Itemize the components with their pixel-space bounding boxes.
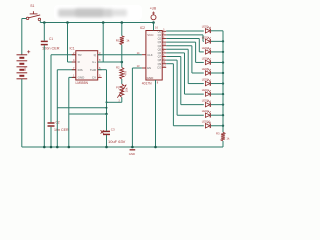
wire THR pin down [98,70,107,114]
wire LED1 cathode to right rail [211,30,223,32]
wire C1 top to rail [43,23,45,41]
svg-text:10k: 10k [125,87,129,92]
svg-text:THR: THR [90,68,97,72]
LED2 [202,35,211,43]
svg-text:LED9: LED9 [202,109,209,113]
LED9 [202,109,211,117]
IC2 GND pin wire to bottom rail [156,80,159,147]
trimmer P1 10k [116,84,129,103]
svg-text:R3: R3 [216,132,220,136]
LED8 [202,99,211,107]
wire LED10 cathode to right rail [211,125,223,127]
svg-text:+UB: +UB [150,7,156,11]
IC2 output pin labels [157,29,162,69]
capacitor C2 10n [48,121,69,132]
LED4 [202,56,211,64]
node C3/bottom rail [105,146,108,149]
wire C3 top [106,114,108,131]
capacitor C1 100n [41,37,60,50]
IC1 pin labels [78,53,97,80]
svg-text:Q4: Q4 [158,44,162,48]
LED1 [202,25,211,33]
wire top +UB rail [40,22,153,24]
node pot/THR vertical [106,101,108,103]
wire Q0 to LED1 [166,30,204,32]
LED10 [202,120,211,128]
node C1/bottom rail [43,146,46,149]
wire Q6 to LED7 [166,53,204,94]
node LED5/right rail [222,72,224,74]
LED7 [202,88,211,96]
svg-text:R1: R1 [116,39,120,43]
svg-text:LED10: LED10 [202,120,211,124]
svg-text:R2: R2 [116,66,120,70]
resistor R2 47k [116,66,128,80]
wire LED7 cathode to right rail [211,93,223,95]
wire reset pin to top rail [68,23,76,63]
node EN-gnd/bottom rail [131,146,134,149]
svg-text:CV: CV [92,76,96,80]
power symbol +UB [150,7,156,20]
IC2 CLK pin stub [137,51,146,55]
node LED10/right rail [222,125,224,127]
wire Q1 to LED2 [166,35,204,41]
wire Q9 to LED10 [166,64,204,126]
svg-text:S1: S1 [30,4,34,8]
op IC1 LM555N body [70,47,98,86]
wire battery minus to bottom rail [21,79,23,147]
svg-text:GND: GND [78,76,86,80]
svg-text:Q3: Q3 [158,40,162,44]
resistor R3 1k [216,132,230,141]
capacitor C3 10uF electrolytic [101,128,126,144]
wire Q2 to LED3 [166,39,204,52]
node junction VCC/top rail [152,21,155,24]
svg-text:P1: P1 [116,86,120,90]
svg-text:C3: C3 [111,128,115,132]
node LED4/right rail [222,61,224,63]
LED3 [202,46,211,54]
svg-text:LED7: LED7 [202,88,209,92]
node LED8/right rail [222,103,224,105]
node LED6/right rail [222,82,224,84]
svg-text:LED6: LED6 [202,77,209,81]
node THR/A junction [106,107,108,109]
svg-text:47k: 47k [124,71,128,76]
svg-text:LED3: LED3 [202,46,209,50]
wire C2 bottom to ground rail [50,127,52,147]
wire P1 bottom to THR node [107,97,122,102]
wire LED2 cathode to right rail [211,40,223,42]
svg-text:LED8: LED8 [202,99,209,103]
svg-text:CLK: CLK [147,53,153,57]
svg-text:Q1: Q1 [158,33,162,37]
wire LED3 cathode to right rail [211,51,223,53]
wire R2 bottom to P1 top [121,79,123,84]
svg-text:10n CER: 10n CER [54,128,69,132]
wire switch to battery (left) [22,19,27,55]
IC2 EN pin stub [137,64,146,68]
wire THR node left to DIS line [57,107,106,109]
watermark blur band [54,5,142,20]
node IC2 GND/bottom rail [154,146,157,149]
battery B1 9V [17,50,31,79]
wire GND pin down to ground rail [69,77,76,147]
svg-text:Q0: Q0 [158,29,162,33]
wire switch to top rail [39,21,41,23]
wire LED9 cathode to right rail [211,114,223,116]
svg-text:Q6: Q6 [158,51,162,55]
node junction R1/top rail [121,21,124,24]
wire Q5 to LED6 [166,49,204,83]
svg-text:Q7: Q7 [158,55,162,59]
IC2 4017 body [140,26,162,85]
svg-text:C1: C1 [49,37,53,41]
wire LED6 cathode to right rail [211,83,223,85]
switch S1 [26,4,40,20]
node R1/U+ junction [121,61,124,64]
wire TR pin to C2 [51,55,76,123]
LED6 [202,77,211,85]
ground symbol GND [129,150,135,156]
node C2/bottom rail [50,146,53,149]
svg-text:Q2: Q2 [158,37,162,41]
wire LED5 cathode to right rail [211,72,223,74]
wire DIS pin down to ground rail [57,70,76,147]
wire R1 bottom through junction to R2 top [121,45,123,68]
svg-text:VCC: VCC [147,33,154,37]
wire rail to R1 top [121,23,123,36]
wire C3 bottom to ground rail [106,135,108,147]
svg-text:Q5: Q5 [158,47,162,51]
wire Q output to IC2 CLK [98,54,142,56]
node C3 top junction [105,113,107,115]
node junction R-pin/top rail [66,21,69,24]
IC2 output pin stubs Q0-Q9 and CO [162,29,166,68]
wire C1 bottom to ground rail [43,45,45,147]
node LED2/right rail [222,40,224,42]
wire LED4 cathode to right rail [211,61,223,63]
wire EN to ground [132,68,142,147]
svg-text:CO: CO [157,65,161,69]
wire U+ pin to R1 junction [98,23,122,63]
svg-text:Q9: Q9 [158,62,162,66]
svg-text:9V: 9V [23,67,27,71]
svg-text:LED5: LED5 [202,67,209,71]
svg-text:GND: GND [129,152,135,156]
node LED9/right rail [222,114,224,116]
wire bottom ground rail [22,146,223,148]
node LED7/right rail [222,93,224,95]
LED5 [202,67,211,75]
resistor R1 1k [116,36,130,45]
svg-text:LM555N: LM555N [76,81,89,85]
wire R3 bottom to ground rail [222,141,224,147]
svg-text:LED4: LED4 [202,56,209,60]
svg-text:IC1: IC1 [70,47,75,51]
svg-text:4017N: 4017N [142,82,152,86]
svg-text:1k: 1k [126,39,130,43]
wire right cathode rail [222,31,224,132]
svg-text:10uF 63V: 10uF 63V [108,139,126,144]
svg-text:GND: GND [147,76,155,80]
wire C3 node left to GND line [69,113,107,115]
node LED3/right rail [222,51,224,53]
node junction C1/top rail [43,21,46,24]
wire Q3 to LED4 [166,42,204,62]
svg-text:LED2: LED2 [202,35,209,39]
IC2 VCC pin wire to rail [154,23,159,31]
svg-text:EN: EN [147,66,151,70]
wire Q8 to LED9 [166,60,204,115]
svg-text:IC2: IC2 [140,26,145,30]
svg-text:LED1: LED1 [202,25,209,29]
node GND/bottom rail [68,146,71,149]
node DIS/bottom rail [56,146,59,149]
svg-text:Q8: Q8 [158,58,162,62]
wire Q4 to LED5 [166,46,204,73]
node junction U+/top rail [102,21,105,24]
IC1 pin stubs and pin numbers [72,51,102,78]
wire LED8 cathode to right rail [211,104,223,106]
svg-text:U+: U+ [92,60,96,64]
svg-text:DIS: DIS [78,68,83,72]
wire Q7 to LED8 [166,57,204,105]
